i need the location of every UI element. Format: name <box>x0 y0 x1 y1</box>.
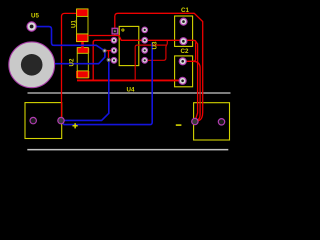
via2 <box>107 58 111 62</box>
wire red C2top <box>183 42 196 61</box>
wire red U1top-to-battery vertical <box>61 13 76 120</box>
big pad (power jack) <box>9 42 55 88</box>
wire red thick U2bottom to C2bottom <box>77 79 183 81</box>
IC U3 pin1 square pad <box>112 28 118 34</box>
capacitor C1 outline <box>175 16 193 46</box>
battery clip left outline <box>25 103 62 139</box>
wire blue big pad to via1 <box>54 51 105 64</box>
IC U3 left pads <box>111 37 117 63</box>
wire red via1 stub <box>105 50 114 52</box>
wire blue battery pad loop right <box>61 42 152 124</box>
fuse U1 silk outline <box>77 9 88 42</box>
IC U3 pin1 mark dot <box>122 29 124 31</box>
fuse U1 top pad <box>76 9 88 16</box>
battery clip left pads <box>30 117 64 123</box>
svg-text:U4: U4 <box>127 87 135 94</box>
svg-text:U5: U5 <box>31 13 39 20</box>
label plus <box>73 123 78 128</box>
wire red B corner to pad2L <box>93 40 114 80</box>
svg-text:U1: U1 <box>70 20 77 28</box>
capacitor C1 pads <box>180 18 187 45</box>
wire red via2 stub <box>109 51 115 60</box>
IC U3 right pads <box>142 27 148 63</box>
wire red U1-U2 stub <box>81 42 84 48</box>
svg-text:U3: U3 <box>152 41 159 49</box>
wire red x135 vertical <box>135 45 166 80</box>
fuse U2 top pad <box>77 48 89 53</box>
IC U3 body <box>119 26 139 65</box>
via1 <box>103 49 107 53</box>
capacitor C2 pads <box>179 58 186 85</box>
fuse U2 bottom pad <box>76 71 90 78</box>
fuse U2 silk outline <box>77 48 88 78</box>
battery clip right outline <box>194 103 230 140</box>
battery holder U4 gray strip bottom <box>27 149 228 151</box>
wire red pin1 to lineA stub <box>114 34 116 36</box>
svg-text:U2: U2 <box>69 58 76 66</box>
fuse U1 bottom pad <box>76 34 88 42</box>
capacitor C2 outline <box>175 56 193 87</box>
pad U5 <box>27 22 36 31</box>
wire blue via2 to battery pad <box>61 60 109 121</box>
wire blue U5 to via1 <box>36 27 104 51</box>
wire red U1bottom line A <box>88 36 198 120</box>
wire red pad4R loop <box>145 41 168 60</box>
svg-text:C1: C1 <box>181 7 189 14</box>
wire red C2top down branch <box>193 61 200 120</box>
label minus <box>176 124 182 126</box>
battery clip right pads <box>192 118 225 125</box>
svg-text:C2: C2 <box>181 48 189 55</box>
wire red pin1 top line <box>115 13 203 121</box>
battery holder U4 gray strip top <box>28 92 231 94</box>
